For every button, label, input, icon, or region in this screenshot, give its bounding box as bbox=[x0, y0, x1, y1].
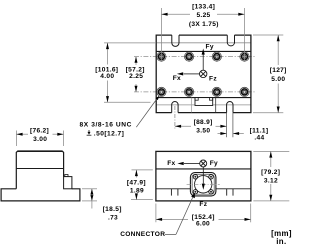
svg-text:6.00: 6.00 bbox=[196, 221, 210, 228]
svg-text:in.: in. bbox=[276, 237, 286, 246]
svg-text:Fz: Fz bbox=[209, 75, 217, 82]
svg-text:[127]: [127] bbox=[270, 67, 287, 74]
svg-text:2.25: 2.25 bbox=[129, 73, 143, 80]
svg-text:[11.1]: [11.1] bbox=[250, 127, 269, 134]
svg-text:5.25: 5.25 bbox=[196, 12, 210, 19]
svg-text:CONNECTOR: CONNECTOR bbox=[120, 231, 165, 238]
svg-text:[133.4]: [133.4] bbox=[192, 3, 215, 10]
svg-text:[79.2]: [79.2] bbox=[261, 169, 280, 176]
svg-text:Fy: Fy bbox=[206, 43, 214, 50]
svg-text:[88.9]: [88.9] bbox=[194, 119, 213, 126]
svg-text:1.89: 1.89 bbox=[130, 188, 144, 195]
svg-text:3.50: 3.50 bbox=[196, 128, 210, 135]
svg-text:[18.5]: [18.5] bbox=[103, 206, 122, 213]
svg-text:5.00: 5.00 bbox=[271, 76, 285, 83]
svg-text:Fx: Fx bbox=[173, 75, 181, 82]
svg-text:3.00: 3.00 bbox=[33, 136, 47, 143]
svg-text:.73: .73 bbox=[108, 214, 118, 221]
svg-text:.44: .44 bbox=[254, 135, 264, 142]
svg-text:Fx: Fx bbox=[167, 160, 175, 167]
svg-text:(3X 1.75): (3X 1.75) bbox=[189, 21, 219, 28]
svg-text:Fz: Fz bbox=[199, 201, 207, 208]
svg-text:.50[12.7]: .50[12.7] bbox=[94, 130, 124, 137]
svg-text:4.00: 4.00 bbox=[100, 73, 114, 80]
svg-text:3.12: 3.12 bbox=[264, 177, 278, 184]
svg-text:Fy: Fy bbox=[210, 160, 218, 167]
svg-text:[76.2]: [76.2] bbox=[30, 127, 49, 134]
svg-text:[47.9]: [47.9] bbox=[127, 179, 146, 186]
svg-text:8X 3/8-16 UNC: 8X 3/8-16 UNC bbox=[80, 121, 133, 128]
